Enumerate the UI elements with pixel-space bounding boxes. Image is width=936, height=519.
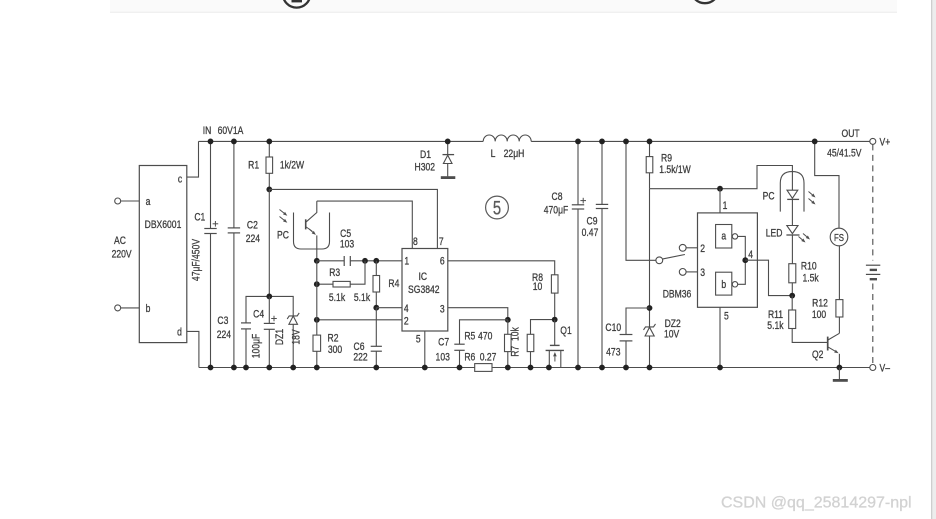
svg-text:C9: C9: [587, 216, 598, 228]
svg-text:LED: LED: [766, 227, 783, 239]
junction: pin 5 at rail: [717, 365, 723, 371]
junction: DBM36 pin 1 tap: [717, 186, 723, 192]
junction: R10/R11/pin4 node: [789, 293, 795, 299]
wire: R9 bottom to opto-LED anode: [650, 166, 793, 191]
svg-text:AC: AC: [114, 235, 126, 247]
zener diode DZ2 10V: [644, 318, 681, 368]
svg-text:1: 1: [404, 255, 409, 267]
svg-text:1.5k/1W: 1.5k/1W: [659, 164, 691, 176]
junction: C6 bottom: [373, 365, 379, 371]
svg-text:5.1k: 5.1k: [767, 320, 783, 332]
toolbar strip background: [110, 0, 897, 12]
svg-text:R4: R4: [388, 278, 399, 290]
svg-text:1.5k: 1.5k: [802, 273, 818, 285]
wire: PC emitter branch down to R2: [316, 261, 318, 335]
wire: dashed battery connection (top): [872, 144, 874, 260]
capacitor C3 224: [217, 315, 251, 368]
svg-text:47μF/450V: 47μF/450V: [191, 239, 203, 281]
svg-text:100: 100: [812, 309, 827, 321]
net label IN 60V1A: [203, 125, 244, 137]
diode D1 H302 (freewheel): [415, 141, 455, 176]
junction: gate node (R8 bottom): [552, 317, 558, 323]
wire: top input/output rail (IN to OUT): [199, 140, 870, 142]
svg-text:Q2: Q2: [812, 349, 823, 361]
junction: R1 bottom node: [266, 187, 272, 193]
svg-text:5: 5: [493, 198, 501, 219]
capacitor C9 0.47: [582, 141, 609, 367]
battery symbol: [866, 265, 880, 279]
svg-text:300: 300: [328, 344, 343, 356]
svg-text:C4: C4: [253, 309, 264, 321]
capacitor C5 103: [340, 228, 355, 266]
resistor R3 5.1k: [317, 261, 365, 305]
junction: C3 bottom: [243, 365, 249, 371]
svg-text:V+: V+: [880, 137, 891, 149]
junction: C5 right / R3 tee: [362, 258, 368, 264]
switch blade: [663, 255, 685, 259]
wire: IC pin 3 to sense node: [448, 308, 508, 320]
LED indicator: [766, 199, 810, 242]
toolbar icon circle right (partial): [691, 0, 719, 3]
wire: IC pin 5 to ground rail: [424, 331, 426, 368]
wire: rail to switch common: [626, 141, 656, 260]
junction: C8 top: [575, 139, 581, 145]
svg-text:C2: C2: [247, 220, 258, 232]
wire: pin 4 to R10/R11 node: [745, 260, 792, 295]
svg-text:DBX6001: DBX6001: [145, 219, 182, 231]
svg-text:a: a: [146, 196, 151, 208]
junction: R7 bottom: [528, 365, 534, 371]
svg-text:PC: PC: [763, 191, 775, 203]
svg-text:470: 470: [478, 330, 493, 342]
svg-text:222: 222: [353, 351, 367, 363]
terminal b (AC input): [115, 305, 140, 311]
junction: C9 top: [599, 139, 605, 145]
svg-text:5: 5: [724, 310, 729, 322]
svg-text:V–: V–: [880, 363, 891, 375]
svg-text:C7: C7: [438, 337, 449, 349]
svg-text:1k/2W: 1k/2W: [280, 160, 305, 172]
junction: C2 top: [231, 139, 237, 145]
resistor R8 10: [532, 272, 558, 320]
resistor R11 5.1k: [767, 296, 827, 343]
junction: R2 bottom: [314, 365, 320, 371]
junction: R5 bottom: [505, 365, 511, 371]
pin labels of SG3842: [404, 236, 445, 346]
junction: switch feed at rail: [623, 139, 629, 145]
svg-text:D1: D1: [420, 149, 431, 161]
label OUT 45/41.5V: [827, 128, 862, 160]
junction: R9 top at rail: [647, 139, 653, 145]
terminal V+: [870, 137, 891, 149]
capacitor C8 470uF (electrolytic): [544, 141, 586, 367]
junction: PC emitter node: [314, 258, 320, 264]
junction: C9 bottom: [599, 365, 605, 371]
junction: DZ2 bottom: [647, 365, 653, 371]
ground symbol at D1 anode: [441, 176, 456, 179]
svg-text:224: 224: [246, 233, 261, 245]
wire: auxiliary supply bus: [246, 296, 293, 323]
wire: PC collector to IC pin 8: [317, 201, 413, 248]
resistor R2 300: [313, 333, 343, 368]
capacitor C4 100uF (electrolytic): [251, 296, 277, 367]
svg-text:CSDN @qq_25814297-npl: CSDN @qq_25814297-npl: [721, 495, 912, 512]
zener diode DZ1 18V: [274, 313, 303, 368]
svg-text:4: 4: [404, 303, 409, 315]
DBM36 pin labels: [700, 200, 753, 323]
svg-text:C8: C8: [552, 191, 563, 203]
junction: Q2 emitter at rail: [837, 365, 843, 371]
wire: pin d to bottom rail: [187, 331, 199, 367]
resistor R5 470: [464, 320, 511, 368]
relay contact a (inside DBM36): [716, 225, 746, 261]
junction: R4 bottom / pin 4 node: [373, 305, 379, 311]
svg-text:5.1k: 5.1k: [329, 292, 345, 304]
svg-text:45/41.5V: 45/41.5V: [827, 148, 862, 160]
relay contact b (inside DBM36): [716, 260, 746, 295]
wire: DBM36 pin 1 up: [719, 189, 721, 213]
wire: FS to top rail: [815, 141, 839, 228]
svg-text:b: b: [146, 303, 151, 315]
junction: C7 bottom: [457, 365, 463, 371]
svg-text:b: b: [721, 279, 726, 291]
svg-text:d: d: [177, 327, 182, 339]
svg-text:473: 473: [606, 347, 621, 359]
capacitor C6 222: [353, 308, 382, 368]
junction: node 4 inside DBM36: [742, 257, 748, 263]
svg-text:7: 7: [439, 236, 444, 248]
terminal V-: [870, 363, 891, 375]
resistor R7 10k: [510, 320, 555, 368]
svg-text:R3: R3: [329, 267, 340, 279]
module DBM36: [663, 213, 758, 307]
svg-text:IN: IN: [203, 125, 212, 137]
svg-text:3: 3: [440, 303, 445, 315]
junction: R4 top tee: [373, 258, 379, 264]
resistor R12 100: [812, 246, 843, 322]
watermark text: [721, 495, 912, 512]
capacitor C2 224: [228, 141, 261, 367]
svg-text:3: 3: [700, 267, 705, 279]
svg-text:R1: R1: [248, 160, 259, 172]
svg-text:SG3842: SG3842: [408, 284, 439, 296]
svg-text:8: 8: [413, 236, 418, 248]
svg-text:2: 2: [700, 243, 705, 255]
svg-text:10: 10: [533, 281, 543, 293]
op-amp/PWM controller IC SG3842: [402, 249, 448, 332]
svg-text:10V: 10V: [664, 329, 680, 341]
transistor Q1 (MOSFET): [546, 320, 572, 368]
terminal a (AC input): [115, 198, 140, 204]
svg-text:PC: PC: [277, 230, 289, 242]
optocoupler phototransistor PC: [277, 201, 329, 261]
junction: pin 5 at rail: [422, 365, 428, 371]
svg-text:R2: R2: [328, 333, 339, 345]
junction: C8 bottom: [575, 365, 581, 371]
module U DBX6001: [139, 166, 187, 343]
resistor R10 1.5k: [789, 235, 819, 296]
transistor Q2 (NPN): [812, 317, 839, 368]
svg-text:R6: R6: [464, 351, 475, 363]
svg-text:103: 103: [436, 351, 451, 363]
junction: pin 2 wire at R2 top: [314, 317, 320, 323]
svg-text:IC: IC: [419, 271, 428, 283]
svg-text:c: c: [178, 174, 182, 186]
svg-text:18V: 18V: [290, 329, 302, 345]
svg-text:OUT: OUT: [842, 128, 860, 140]
ground symbol at Q2 emitter: [833, 368, 848, 381]
toolbar icon circle left (partial): [283, 0, 311, 8]
capacitor C10 473: [605, 308, 649, 368]
wire: R9 node down to DZ2: [649, 189, 651, 327]
junction: R3 left node: [314, 281, 320, 287]
svg-text:C1: C1: [194, 212, 205, 224]
wire: R1 node to IC pin 7: [269, 189, 437, 248]
wire: IC pin 6 to R8: [448, 261, 555, 275]
optocoupler LED side PC: [763, 172, 816, 212]
svg-text:224: 224: [217, 329, 232, 341]
svg-text:R9: R9: [661, 153, 672, 165]
resistor R4 5.1k: [354, 261, 400, 308]
svg-text:R7 10k: R7 10k: [510, 327, 522, 357]
svg-text:C10: C10: [605, 322, 621, 334]
inductor L 22uH: [483, 135, 531, 160]
svg-text:5.1k: 5.1k: [354, 292, 370, 304]
svg-text:0.47: 0.47: [582, 227, 599, 239]
junction: C4 top node: [266, 294, 272, 300]
capacitor C1 47uF/450V (electrolytic): [191, 141, 219, 367]
junction: C1 top: [208, 139, 214, 145]
wire: bottom return rail (left part): [199, 367, 475, 369]
svg-text:60V1A: 60V1A: [218, 125, 244, 137]
wire: PC emitter to IC pin 1: [317, 260, 402, 262]
svg-text:5: 5: [416, 334, 421, 346]
svg-text:H302: H302: [415, 162, 436, 174]
svg-text:100μF: 100μF: [251, 334, 263, 358]
wire: feedback line to IC pin 2: [317, 319, 402, 321]
svg-text:DBM36: DBM36: [663, 288, 692, 300]
fan/fuse indicator FS: [830, 228, 848, 246]
svg-text:1: 1: [723, 200, 728, 212]
svg-text:R5: R5: [464, 330, 475, 342]
svg-text:DZ1: DZ1: [274, 329, 286, 345]
resistor R9 1.5k/1W: [646, 141, 691, 188]
junction: Q1 source at rail: [546, 365, 552, 371]
resistor R1 1k/2W: [248, 141, 305, 189]
svg-text:C3: C3: [217, 315, 228, 327]
svg-text:Q1: Q1: [560, 325, 571, 337]
junction: C2 bottom: [231, 365, 237, 371]
junction: C10 bottom: [623, 365, 629, 371]
junction: R1 top on rail: [266, 139, 272, 145]
wire: dashed battery connection (bottom): [872, 284, 874, 365]
svg-text:R12: R12: [812, 298, 828, 310]
junction: C4 bottom: [266, 365, 272, 371]
junction: C1 bottom: [208, 365, 214, 371]
junction: sense node (R5 top): [505, 317, 511, 323]
svg-text:FS: FS: [834, 232, 844, 243]
junction: FS feed at rail: [812, 139, 818, 145]
svg-text:22μH: 22μH: [504, 148, 525, 160]
svg-text:103: 103: [340, 239, 355, 251]
junction: DZ2 top node: [647, 305, 653, 311]
wire: R1 node down to C3/C4/DZ1 bus: [268, 189, 270, 296]
svg-text:R10: R10: [801, 260, 817, 272]
junction: D1 at top rail: [445, 139, 451, 145]
svg-text:4: 4: [748, 249, 753, 261]
wire: DBM36 pin 5 to rail: [719, 307, 721, 367]
wire: node to IC pin 4: [376, 307, 402, 309]
svg-text:6: 6: [440, 255, 445, 267]
svg-text:2: 2: [404, 316, 409, 328]
wire: bottom return rail (right part): [492, 367, 870, 369]
capacitor C7 103: [436, 320, 508, 368]
svg-text:470μF: 470μF: [544, 205, 568, 217]
figure callout circled 5: [486, 196, 509, 219]
switch contact 3: [679, 269, 697, 276]
svg-text:a: a: [721, 230, 726, 242]
switch common contact: [656, 257, 663, 264]
resistor R6 0.27 (in bottom rail): [464, 351, 496, 371]
switch contact 2: [679, 244, 697, 251]
junction: DZ1 bottom: [290, 365, 296, 371]
scrollbar at right edge: [932, 0, 936, 519]
svg-text:0.27: 0.27: [480, 351, 497, 363]
wire: pin c to top rail: [187, 141, 199, 177]
label AC 220V: [112, 235, 132, 261]
svg-text:220V: 220V: [112, 248, 132, 260]
svg-text:L: L: [491, 148, 496, 160]
